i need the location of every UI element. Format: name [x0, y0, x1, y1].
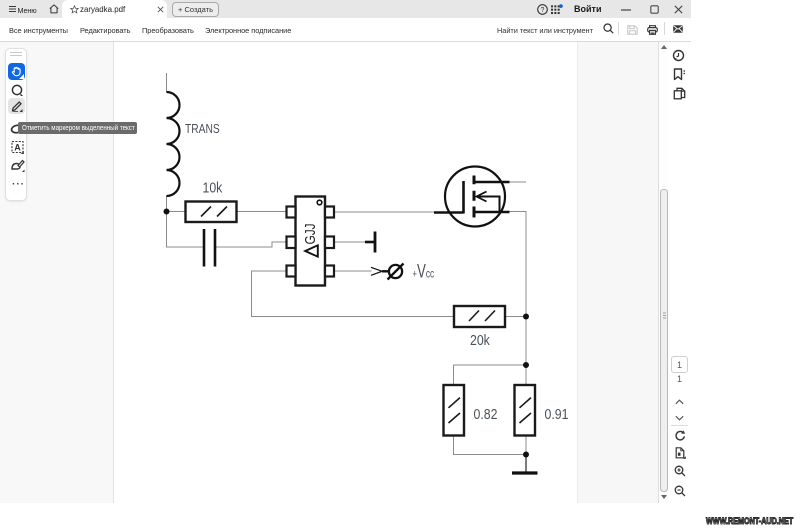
- svg-text:A: A: [14, 142, 21, 152]
- svg-text:?: ?: [540, 7, 544, 14]
